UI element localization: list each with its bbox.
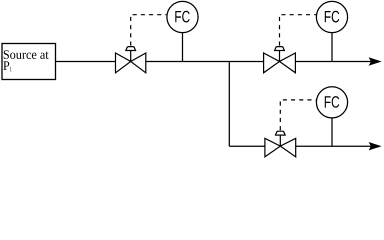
valve V3 <box>265 131 296 157</box>
valve V1 <box>116 47 146 73</box>
wire: V2 to top arrow <box>296 61 372 63</box>
wire: bottom branch horizontal <box>229 145 265 147</box>
valve V2 <box>264 47 296 73</box>
wire: box to valve V1 <box>56 61 116 63</box>
flow controller FC1 <box>167 1 198 61</box>
dashed control line to FC2 <box>280 15 317 46</box>
wire: V1 to valve V2 <box>146 61 264 63</box>
dashed control line to FC1 <box>131 15 167 46</box>
arrow bottom outlet <box>369 142 382 150</box>
wire: tee branch down <box>228 62 230 147</box>
dashed control line to FC3 <box>280 100 316 130</box>
wire: V3 to bottom arrow <box>296 145 372 147</box>
flow controller FC3 <box>316 87 347 146</box>
flow controller FC2 <box>316 1 347 61</box>
arrow top outlet <box>369 57 382 65</box>
source box <box>2 44 56 80</box>
